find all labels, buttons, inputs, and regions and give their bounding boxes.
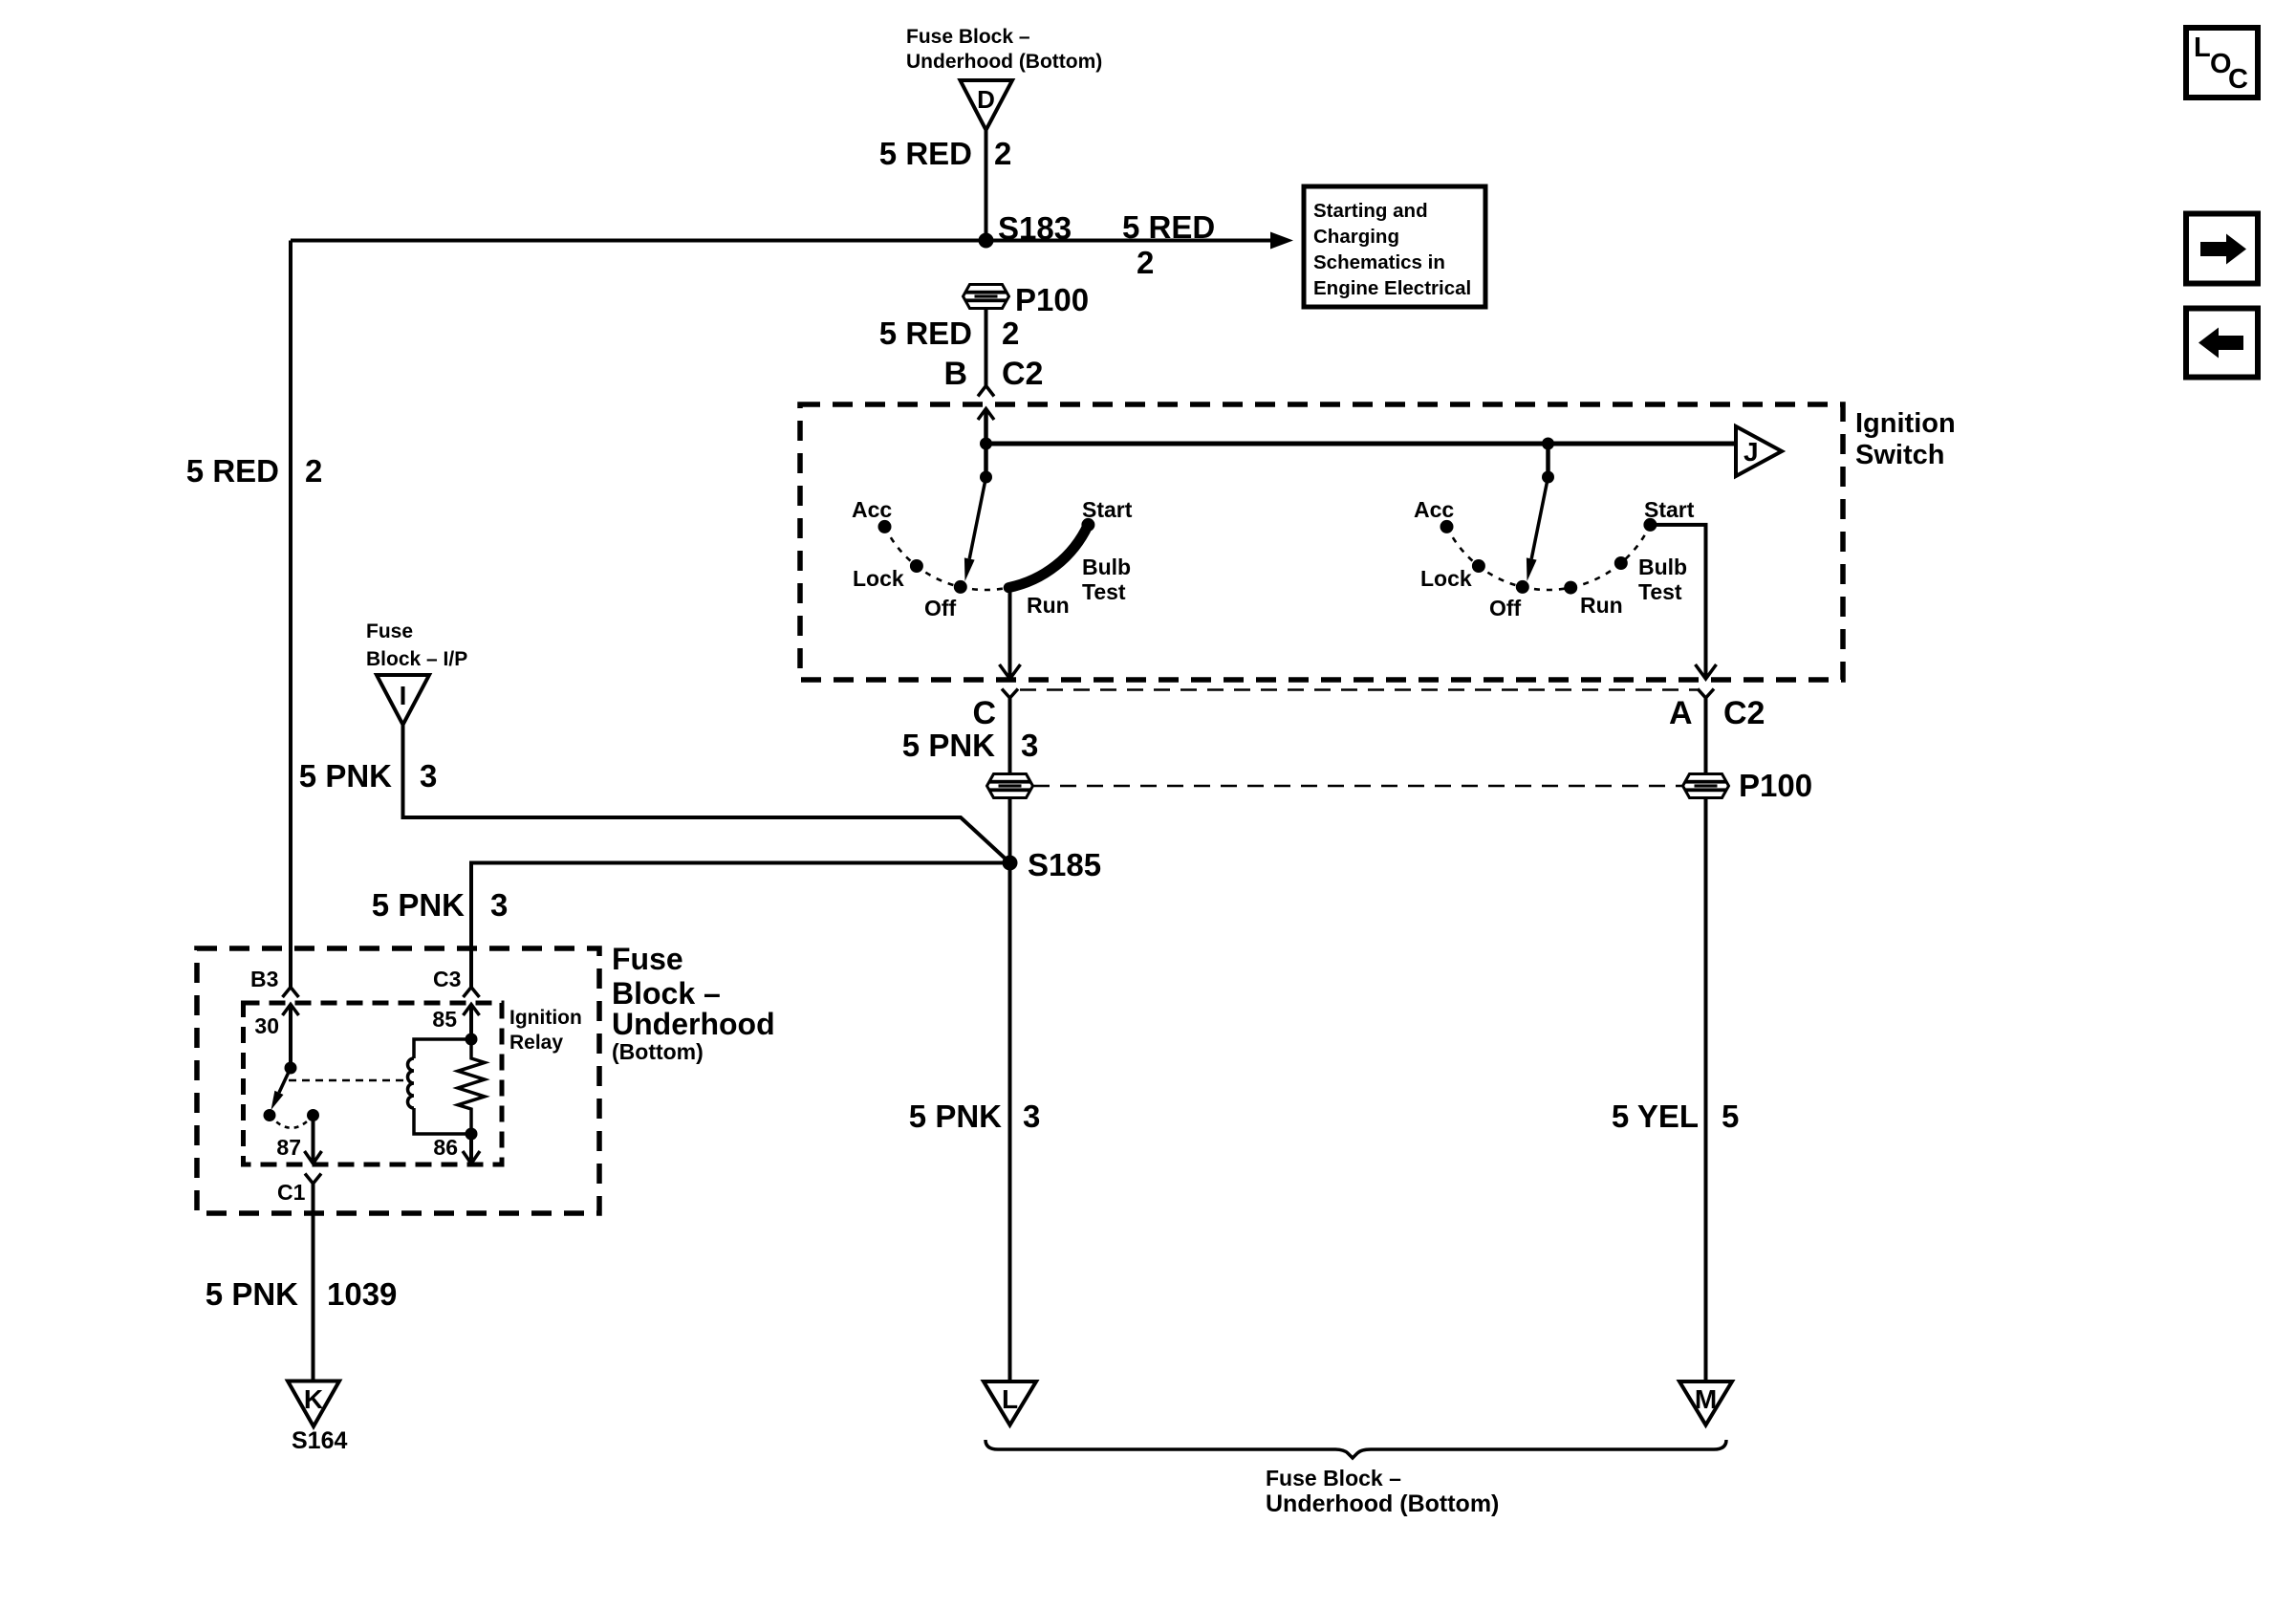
right switch position dot Run xyxy=(1564,581,1577,595)
connector chevron B xyxy=(978,386,994,397)
svg-text:Acc: Acc xyxy=(1414,497,1454,522)
svg-text:Switch: Switch xyxy=(1855,440,1944,470)
svg-text:86: 86 xyxy=(433,1135,458,1160)
left switch labels xyxy=(852,497,1133,620)
right switch position dot Start xyxy=(1643,518,1657,532)
svg-text:A: A xyxy=(1669,695,1693,731)
svg-text:D: D xyxy=(977,85,995,114)
svg-text:Fuse Block –: Fuse Block – xyxy=(1266,1466,1401,1490)
svg-text:I: I xyxy=(400,681,407,710)
svg-text:C2: C2 xyxy=(1723,695,1765,731)
connector P100 dashed tie line xyxy=(1033,785,1682,788)
connector chevron C xyxy=(1002,689,1018,699)
right switch position dot Off xyxy=(1516,580,1529,594)
svg-text:5 PNK: 5 PNK xyxy=(206,1276,298,1312)
relay contact dashed arc xyxy=(270,1116,314,1128)
wire label 5 RED 2 (below P100) xyxy=(879,315,1020,351)
svg-text:C: C xyxy=(972,695,996,731)
relay switch pivot node xyxy=(285,1062,297,1075)
left switch position dot Start xyxy=(1081,518,1094,532)
svg-text:P100: P100 xyxy=(1015,282,1089,317)
svg-text:L: L xyxy=(1002,1384,1018,1414)
node S185 xyxy=(1003,847,1102,882)
svg-text:5 PNK: 5 PNK xyxy=(909,1099,1002,1134)
svg-text:M: M xyxy=(1695,1384,1717,1414)
connector triangle I xyxy=(377,675,429,725)
wire A down xyxy=(1704,698,1708,774)
right switch output wire Start to A xyxy=(1650,525,1716,679)
connector triangle M xyxy=(1679,1382,1732,1425)
svg-text:5 PNK: 5 PNK xyxy=(372,887,465,923)
right switch labels xyxy=(1414,497,1695,620)
connector triangle D xyxy=(961,80,1013,130)
connector P100 (right bottom) xyxy=(1683,768,1813,803)
svg-text:5 RED: 5 RED xyxy=(1122,209,1215,245)
wire bus to J xyxy=(986,442,1737,446)
brace fuse block underhood bottom xyxy=(986,1440,1726,1458)
wire label 5 PNK 1039 xyxy=(206,1276,398,1312)
wire label 5 PNK 3 (I feed) xyxy=(299,758,438,794)
svg-text:Starting and: Starting and xyxy=(1313,200,1428,222)
svg-text:Lock: Lock xyxy=(1420,566,1472,591)
svg-text:Ignition: Ignition xyxy=(1855,408,1956,439)
relay coil bottom node xyxy=(466,1128,478,1141)
wire P100 to B xyxy=(985,309,988,386)
node S183 xyxy=(979,210,1072,249)
wire D to S183 xyxy=(985,130,988,241)
pin 86 exit arrow xyxy=(463,1134,480,1164)
wire I to S185 xyxy=(403,725,1010,863)
svg-text:Lock: Lock xyxy=(853,566,904,591)
svg-text:Test: Test xyxy=(1638,579,1682,604)
svg-text:1039: 1039 xyxy=(327,1276,397,1312)
left switch thick arc Run-Start xyxy=(1008,525,1088,588)
connector triangle L xyxy=(984,1382,1036,1425)
connector P100 (top) xyxy=(964,282,1090,317)
svg-text:S185: S185 xyxy=(1028,847,1101,882)
pin B entry arrow xyxy=(978,409,994,445)
svg-text:Off: Off xyxy=(1489,596,1522,620)
svg-text:Relay: Relay xyxy=(509,1032,563,1054)
wire label 5 PNK 3 (below C) xyxy=(902,728,1039,763)
svg-text:Underhood (Bottom): Underhood (Bottom) xyxy=(906,51,1102,73)
left switch position dot Lock xyxy=(910,559,923,573)
svg-text:87: 87 xyxy=(276,1135,301,1160)
wire label 5 RED 2 (left drop) xyxy=(186,453,323,489)
fuse block underhood dashed box xyxy=(197,948,599,1213)
svg-text:Block –: Block – xyxy=(612,976,721,1011)
pin 85 entry arrow xyxy=(464,1005,480,1040)
relay pin 87 node xyxy=(307,1109,319,1121)
wire S183 left xyxy=(291,239,986,243)
connector chevron A xyxy=(1698,689,1714,699)
svg-text:5 YEL: 5 YEL xyxy=(1612,1099,1699,1134)
right switch position dot Acc xyxy=(1440,520,1454,533)
svg-text:L: L xyxy=(2194,33,2211,63)
relay coil dashed link xyxy=(289,1079,405,1082)
left switch position dot Off xyxy=(954,580,967,594)
wire label 5 RED 2 (top) xyxy=(879,136,1012,171)
svg-text:Fuse Block –: Fuse Block – xyxy=(906,26,1030,48)
svg-text:Start: Start xyxy=(1644,497,1695,522)
relay coil top node xyxy=(466,1033,478,1046)
wire C1 to K xyxy=(312,1184,315,1382)
left switch output wire Run to C xyxy=(1000,590,1021,679)
icon right arrow box xyxy=(2186,214,2258,284)
svg-text:85: 85 xyxy=(432,1007,457,1032)
svg-text:Underhood (Bottom): Underhood (Bottom) xyxy=(1266,1490,1499,1517)
wire C down xyxy=(1008,698,1012,774)
svg-text:3: 3 xyxy=(490,887,508,923)
wire pivot feed left xyxy=(984,444,988,477)
connector chevron C3 xyxy=(464,988,480,998)
svg-text:30: 30 xyxy=(254,1013,279,1038)
svg-text:Start: Start xyxy=(1082,497,1133,522)
svg-text:3: 3 xyxy=(1023,1099,1040,1134)
left switch position dot Acc xyxy=(878,520,892,533)
label Fuse Block Underhood (top) xyxy=(906,26,1102,73)
svg-text:Charging: Charging xyxy=(1313,226,1399,248)
icon LOC box xyxy=(2186,28,2258,98)
wire S183 to Starting and Charging (arrow) xyxy=(986,232,1294,250)
ignition switch dashed box xyxy=(800,404,1843,680)
relay contact node (arm rest) xyxy=(264,1109,276,1121)
relay coil xyxy=(408,1058,415,1108)
svg-text:K: K xyxy=(304,1384,323,1414)
svg-text:5 RED: 5 RED xyxy=(186,453,279,489)
connector P100 (left bottom) xyxy=(987,774,1033,798)
svg-text:Ignition: Ignition xyxy=(509,1007,582,1029)
svg-text:Bulb: Bulb xyxy=(1082,555,1131,579)
connector triangle K xyxy=(288,1382,339,1427)
svg-text:Run: Run xyxy=(1027,593,1070,618)
svg-text:(Bottom): (Bottom) xyxy=(612,1039,704,1064)
svg-text:Off: Off xyxy=(924,596,957,620)
label Fuse Block Underhood (bottom) xyxy=(1266,1466,1499,1517)
svg-text:3: 3 xyxy=(420,758,437,794)
label Fuse Block Underhood (Bottom) right of box xyxy=(612,942,775,1064)
svg-text:Run: Run xyxy=(1580,593,1623,618)
right switch position dot Lock xyxy=(1472,559,1485,573)
right switch position dot Bulb Test xyxy=(1614,556,1628,570)
connector triangle J xyxy=(1736,426,1782,476)
svg-text:Underhood: Underhood xyxy=(612,1007,775,1041)
svg-text:Acc: Acc xyxy=(852,497,892,522)
ignition relay dashed box xyxy=(244,1003,503,1164)
node left pivot xyxy=(980,471,992,484)
wire label 5 PNK 3 (L feed) xyxy=(909,1099,1041,1134)
pin labels A / C2 xyxy=(1669,695,1765,731)
label Ignition Relay xyxy=(509,1007,582,1054)
wire label 5 RED 2 (to starting) xyxy=(1122,209,1215,280)
svg-text:5: 5 xyxy=(1722,1099,1739,1134)
svg-text:C3: C3 xyxy=(433,967,461,991)
svg-text:5 PNK: 5 PNK xyxy=(902,728,995,763)
relay coil bottom wire xyxy=(414,1108,471,1134)
svg-text:5 RED: 5 RED xyxy=(879,315,972,351)
node right pivot xyxy=(1542,471,1554,484)
pin 87 exit arrow xyxy=(305,1116,322,1164)
label Ignition Switch xyxy=(1855,408,1956,470)
wire label 5 YEL 5 (M feed) xyxy=(1612,1099,1739,1134)
svg-text:J: J xyxy=(1744,437,1759,467)
svg-text:3: 3 xyxy=(1021,728,1038,763)
pin labels B / C2 xyxy=(943,356,1043,392)
svg-text:Fuse: Fuse xyxy=(612,942,683,976)
svg-text:B: B xyxy=(943,356,967,392)
svg-text:C: C xyxy=(2228,64,2248,95)
wire S183 left drop to B3 xyxy=(289,241,292,988)
svg-text:5 RED: 5 RED xyxy=(879,136,972,171)
svg-text:Bulb: Bulb xyxy=(1638,555,1687,579)
wire pivot feed right xyxy=(1546,444,1550,477)
relay coil loop wire xyxy=(414,1039,471,1058)
connector chevron C1 xyxy=(305,1174,321,1185)
svg-text:Schematics in: Schematics in xyxy=(1313,251,1445,273)
svg-text:5 PNK: 5 PNK xyxy=(299,758,392,794)
svg-text:C2: C2 xyxy=(1002,356,1043,392)
svg-text:Engine Electrical: Engine Electrical xyxy=(1313,277,1471,299)
right switch dotted arc Acc-Start xyxy=(1447,525,1651,590)
relay switch arm with arrow xyxy=(271,1068,292,1110)
relay resistor xyxy=(458,1039,485,1134)
node at left pivot feed xyxy=(980,438,992,450)
wire S185 branch to C3 xyxy=(471,863,1010,988)
svg-text:2: 2 xyxy=(1002,315,1019,351)
left switch arm with arrow xyxy=(964,477,986,581)
left switch dotted arc Acc-Run xyxy=(885,527,1009,590)
svg-text:2: 2 xyxy=(994,136,1011,171)
box Starting and Charging Schematics xyxy=(1304,186,1485,307)
svg-text:C1: C1 xyxy=(277,1180,306,1205)
svg-text:S164: S164 xyxy=(292,1427,347,1454)
wire label 5 PNK 3 (C3 drop) xyxy=(372,887,509,923)
svg-text:Block – I/P: Block – I/P xyxy=(366,648,467,670)
svg-text:B3: B3 xyxy=(250,967,278,991)
right switch arm with arrow xyxy=(1527,477,1549,581)
svg-text:2: 2 xyxy=(1137,245,1154,280)
pin 30 entry arrow xyxy=(283,1005,299,1069)
svg-text:2: 2 xyxy=(305,453,322,489)
icon left arrow box xyxy=(2186,309,2258,378)
svg-text:Test: Test xyxy=(1082,579,1126,604)
svg-text:Fuse: Fuse xyxy=(366,620,413,642)
label Fuse Block I/P xyxy=(366,620,467,670)
connector C2 thin dashed line (bottom of switch box) xyxy=(1020,688,1698,691)
wire P100 to S185 and L xyxy=(1008,798,1012,1382)
connector chevron B3 xyxy=(283,988,299,998)
svg-text:P100: P100 xyxy=(1739,768,1812,803)
node at right pivot feed xyxy=(1542,438,1554,450)
wire right P100 down to M xyxy=(1704,798,1708,1382)
